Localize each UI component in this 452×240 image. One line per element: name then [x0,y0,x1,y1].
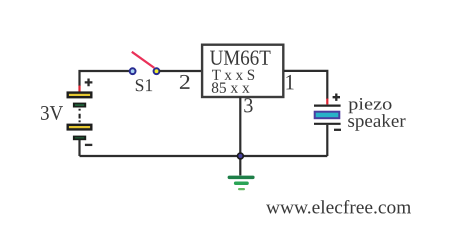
battery plate long 2 [68,125,92,130]
wire junction to ground [239,156,241,175]
label S1 [136,79,152,91]
wire pin 1 to piezo [284,71,327,99]
piezo element [315,112,340,119]
ground bar 3 [238,188,245,190]
wire switch to pin 2 [159,70,202,72]
pin 3 label [244,98,252,112]
wire battery minus to bottom rail [78,140,80,156]
switch terminal right [154,68,160,74]
label www.elecfree.com [266,200,411,214]
IC sub label 85 x x [212,82,250,92]
pin 1 label [286,75,293,90]
ground bar 1 [228,176,255,180]
wire bottom rail [80,155,328,157]
battery plate short 2 [74,137,85,140]
wire piezo to bottom rail [326,125,328,156]
battery plate short 1 [74,104,85,107]
wire top rail left: battery top to switch [80,71,130,86]
battery B1 3V [68,93,92,156]
switch S1 [130,52,160,74]
IC U1 UM66T box [202,45,283,97]
battery minus sign [85,144,92,146]
ground [228,176,255,191]
piezo bottom plate [314,123,341,125]
ground bar 2 [234,182,249,186]
node junction dot [238,153,244,159]
label speaker [348,114,405,131]
battery plate long 1 [68,93,92,98]
battery dashed link [79,109,81,124]
piezo top plate [314,104,341,106]
label piezo [348,98,391,113]
IC sub label T x x S [212,70,254,80]
wire pin 3 to junction [239,97,241,156]
switch terminal left [130,68,136,74]
battery plus sign [85,79,93,87]
wire red tip at battery + [78,86,80,92]
piezo speaker LS1 [314,94,341,157]
switch lever [132,52,155,68]
label 3V [41,106,63,120]
piezo plus sign [333,94,340,101]
piezo minus sign [334,129,341,131]
pin 2 label [180,75,190,89]
wire red tip at piezo + [326,99,328,105]
IC label UM66T [210,50,270,64]
